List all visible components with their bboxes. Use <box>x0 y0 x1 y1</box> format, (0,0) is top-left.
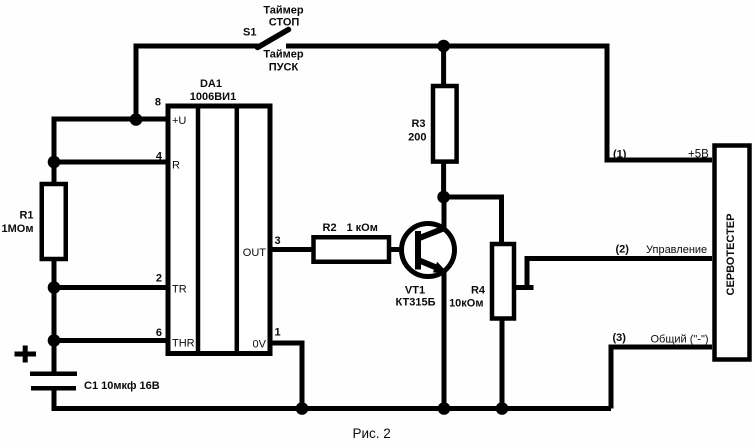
wire bottom rail <box>52 406 612 411</box>
svg-text:8: 8 <box>155 97 161 109</box>
wire R3 top stub <box>441 46 446 86</box>
capacitor C1 <box>30 374 160 392</box>
svg-text:Общий ("-"): Общий ("-") <box>651 334 709 346</box>
svg-text:OUT: OUT <box>243 247 267 259</box>
wire top rail left segment <box>134 44 260 120</box>
wire R4 bottom stub <box>500 319 505 412</box>
wire wiper tap to servotester pin 2 <box>515 259 712 288</box>
wire below C1 to bottom rail <box>52 388 57 411</box>
svg-text:(2): (2) <box>616 244 630 256</box>
wire R pin line <box>52 160 171 165</box>
label pin (2) Управление <box>616 244 708 257</box>
node junction collector / R3 / R4 <box>437 191 450 204</box>
svg-text:1МОм: 1МОм <box>2 223 34 235</box>
wire OUT pin stub <box>270 247 313 252</box>
wire 0V pin to bottom rail <box>270 343 302 409</box>
resistor R4 <box>449 244 514 319</box>
svg-text:СЕРВОТЕСТЕР: СЕРВОТЕСТЕР <box>725 214 737 296</box>
svg-text:TR: TR <box>172 284 187 296</box>
node junction bottom rail emitter <box>438 402 451 415</box>
svg-text:Рис. 2: Рис. 2 <box>353 426 391 441</box>
wire R3 bottom stub <box>441 162 446 199</box>
node junction bottom rail R4 <box>496 402 509 415</box>
svg-text:+U: +U <box>172 115 186 127</box>
svg-text:1 кОм: 1 кОм <box>347 222 378 234</box>
svg-text:DA1: DA1 <box>200 78 222 90</box>
svg-text:ПУСК: ПУСК <box>269 62 299 74</box>
svg-text:THR: THR <box>172 338 195 350</box>
switch S1 <box>243 27 289 48</box>
node junction THR <box>48 334 61 347</box>
svg-text:200: 200 <box>408 132 426 144</box>
wire collector up <box>442 195 447 231</box>
label Таймер ПУСК <box>263 49 304 74</box>
node junction top rail / R3 <box>437 40 450 53</box>
wire R2 to base <box>389 247 418 252</box>
svg-text:2: 2 <box>156 273 162 285</box>
svg-text:S1: S1 <box>243 27 256 39</box>
node junction R <box>48 156 61 169</box>
svg-text:4: 4 <box>156 151 163 163</box>
node junction +U <box>130 113 143 126</box>
svg-text:Управление: Управление <box>646 244 707 256</box>
resistor R1 <box>2 184 66 259</box>
transistor Q1: VT1 КТ315Б <box>396 224 455 309</box>
wire THR pin line <box>52 338 171 343</box>
svg-text:R4: R4 <box>471 285 486 297</box>
node junction TR <box>48 281 61 294</box>
resistor R2 <box>314 222 390 262</box>
svg-text:+5В: +5В <box>688 149 709 161</box>
svg-text:VT1: VT1 <box>405 285 425 297</box>
svg-text:R3: R3 <box>411 118 425 130</box>
resistor R3 <box>408 86 456 162</box>
svg-text:СТОП: СТОП <box>269 17 300 29</box>
svg-text:C1 10мкф 16В: C1 10мкф 16В <box>84 380 160 392</box>
svg-text:10кОм: 10кОм <box>449 298 483 310</box>
svg-text:1: 1 <box>275 327 281 339</box>
wire below R1 <box>52 259 57 374</box>
wire +U pin line <box>52 117 171 185</box>
svg-text:Таймер: Таймер <box>263 49 304 61</box>
wire servotester pin 3 to bottom rail <box>611 347 712 409</box>
svg-text:0V: 0V <box>253 339 267 351</box>
svg-text:R2: R2 <box>323 222 337 234</box>
label pin (1) +5В <box>613 149 709 161</box>
svg-text:6: 6 <box>156 327 162 339</box>
wire top rail right segment to servotester pin 1 <box>286 46 712 160</box>
svg-text:(1): (1) <box>613 149 627 161</box>
svg-text:R: R <box>172 160 180 172</box>
node junction bottom rail 0V <box>296 402 309 415</box>
wire emitter down <box>442 269 447 411</box>
svg-text:R1: R1 <box>19 210 33 222</box>
op-amp U1: timer IC DA1 1006ВИ1 box <box>168 78 270 354</box>
label pin (3) Общий <box>613 332 709 346</box>
label Таймер СТОП <box>263 5 304 29</box>
svg-text:3: 3 <box>275 235 281 247</box>
svg-text:Таймер: Таймер <box>263 5 304 17</box>
svg-text:КТ315Б: КТ315Б <box>396 297 436 309</box>
wire TR pin line <box>52 285 171 290</box>
servotester box <box>715 146 750 360</box>
wire junction to R4 top <box>444 197 502 244</box>
polarity plus sign <box>15 346 37 363</box>
svg-text:(3): (3) <box>613 332 627 344</box>
svg-text:1006ВИ1: 1006ВИ1 <box>190 91 236 103</box>
